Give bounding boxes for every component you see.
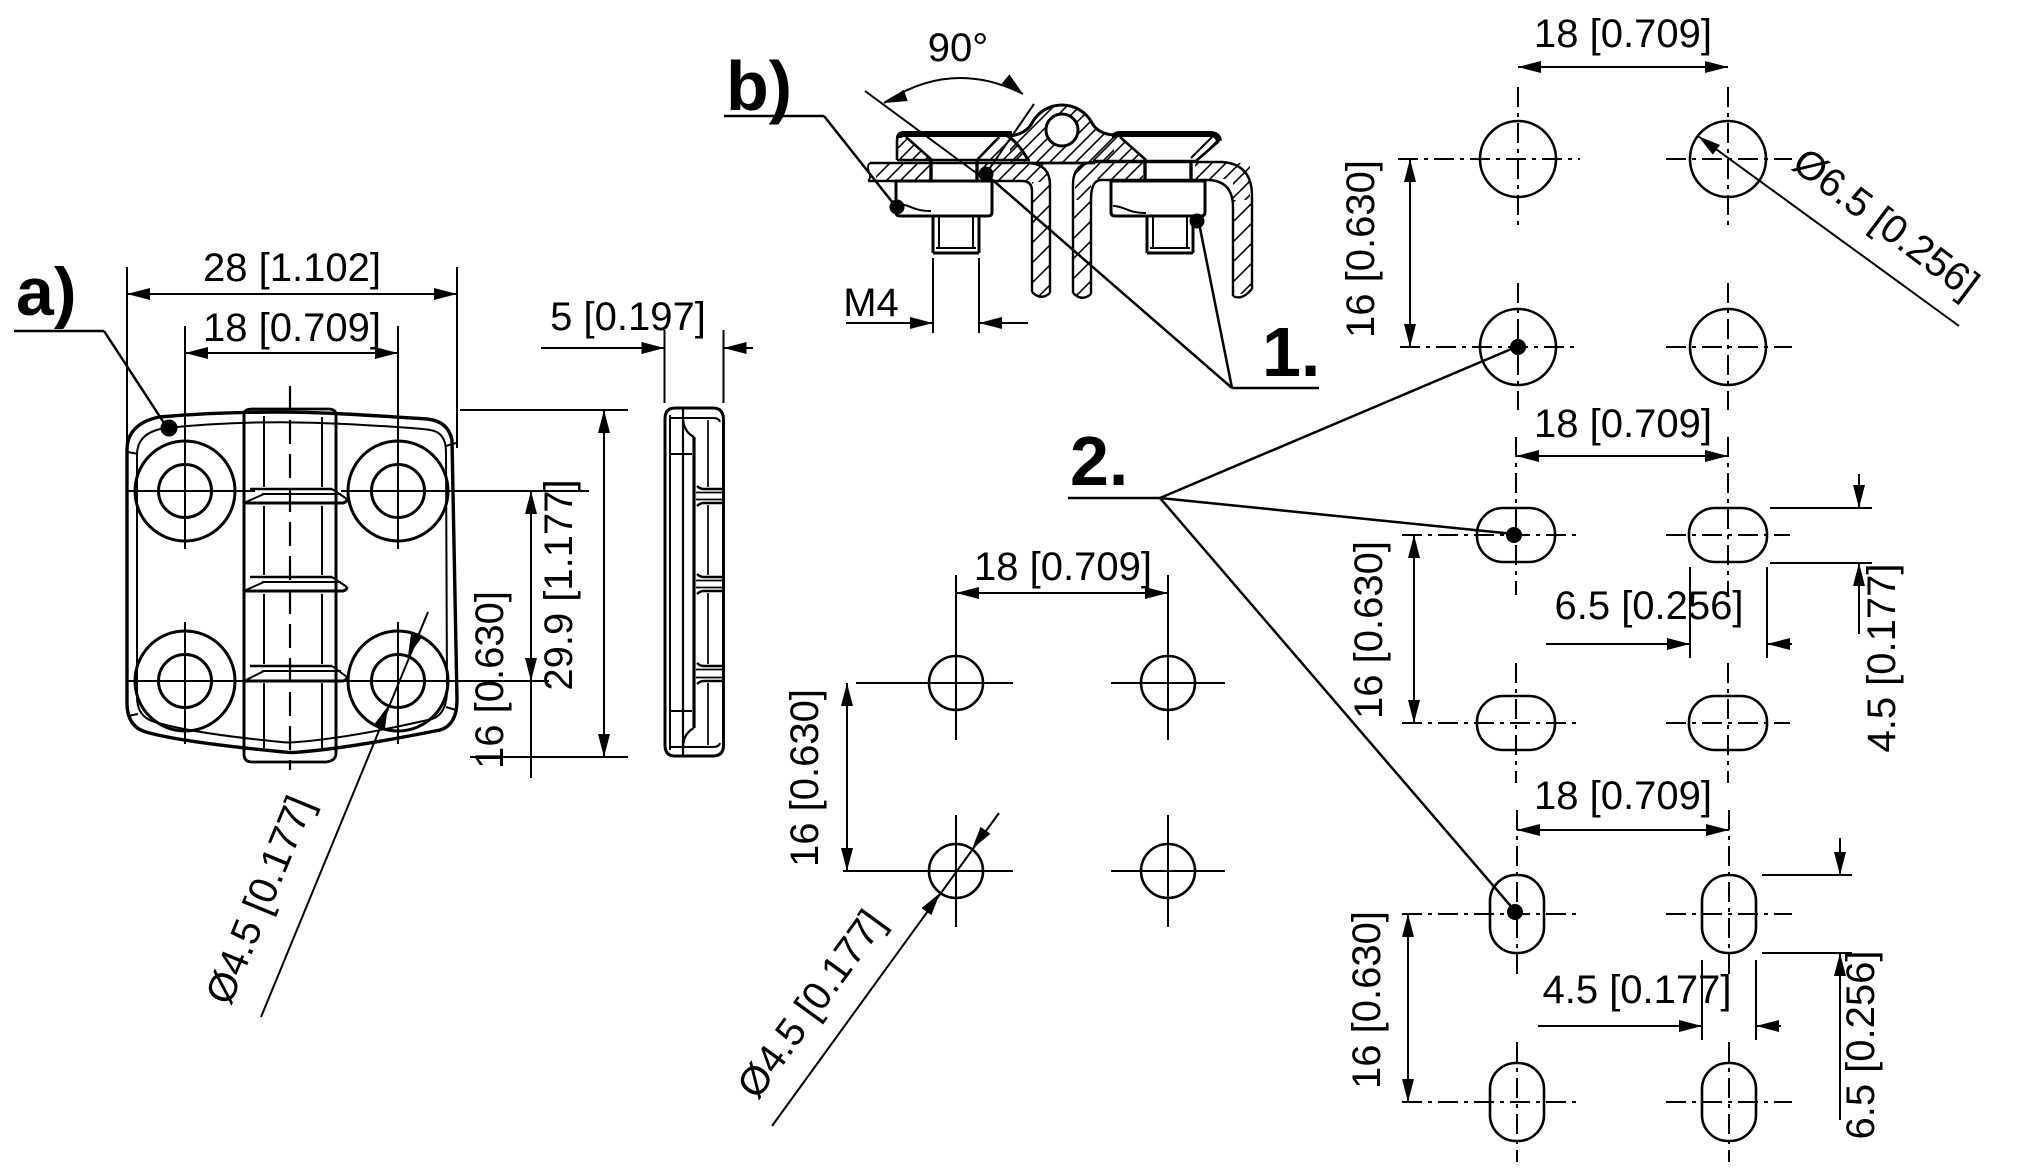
svg-text:16 [0.630]: 16 [0.630] (1347, 541, 1391, 719)
svg-text:18 [0.709]: 18 [0.709] (1534, 402, 1712, 446)
section screw 2 nut block (1111, 181, 1205, 216)
section left leaf rounded end (1004, 134, 1028, 160)
section right panel plate outline (1073, 162, 1252, 293)
hinge upper-left hole circle (159, 465, 212, 518)
knuckle gap boxes (250, 488, 332, 491)
knuckle outer right line (335, 417, 338, 752)
section right panel hatching (1050, 190, 1425, 305)
dimension 16 [0.630] hinge (530, 491, 532, 778)
hinge corner tick bottom-right (446, 707, 456, 710)
svg-text:4.5 [0.177]: 4.5 [0.177] (1860, 563, 1904, 752)
section hinge pin hole (1046, 114, 1078, 146)
svg-text:a): a) (16, 254, 76, 330)
section right leaf outline (1115, 134, 1219, 141)
hinge lower-right counterbore circle (348, 631, 448, 731)
side view knuckle barrel chamfer line (707, 420, 709, 487)
section left leaf hatching (816, 130, 1098, 165)
middle-right pattern slots (1477, 508, 1555, 562)
hinge front view outer outline (127, 412, 457, 752)
svg-text:M4: M4 (843, 281, 899, 325)
middle-right dim 18 [0.709] (1516, 455, 1728, 457)
side view leaf face line (682, 409, 684, 755)
dimension 29.9 [1.177] (460, 409, 628, 411)
section arm B bottom end (1073, 293, 1091, 298)
side view knuckle gaps (697, 486, 724, 489)
section screw 2 neck (1143, 160, 1146, 181)
90 degree dimension arc (884, 78, 1023, 103)
middle-right dim 6.5 [0.256] (1689, 567, 1691, 658)
middle-right crosshairs (1402, 534, 1580, 536)
side view top chamfer curve (683, 419, 694, 437)
dot for 2. middle-right pattern (1506, 527, 1522, 543)
section right panel bottom end (1233, 289, 1252, 297)
center pattern leader dia 4.5 (772, 813, 999, 1126)
section boss bottom line over gap (1028, 162, 1095, 165)
svg-text:18 [0.709]: 18 [0.709] (203, 306, 381, 350)
svg-text:16 [0.630]: 16 [0.630] (783, 689, 827, 867)
top-right crosshairs (1398, 158, 1580, 160)
dot for a) (161, 420, 178, 437)
section plate left break (868, 163, 870, 181)
hinge lower-left counterbore circle (135, 631, 235, 731)
bottom-right dim 18 [0.709] (1517, 829, 1729, 831)
knuckle strip bottom cap (244, 747, 336, 762)
bottom-right pattern slots (1490, 875, 1544, 953)
center pattern holes (929, 656, 983, 710)
hinge lower-left hole circle (159, 655, 212, 708)
svg-text:6.5 [0.256]: 6.5 [0.256] (1554, 584, 1743, 628)
center pattern dim 16 [0.630] (846, 683, 848, 871)
knuckle inner right line (321, 417, 323, 487)
svg-text:2.: 2. (1070, 422, 1128, 500)
hinge front view inner chamfer line (137, 422, 447, 742)
bottom-right crosshairs (1402, 913, 1580, 915)
side view bottom horizontal (671, 743, 720, 747)
bottom-right dim 16 [0.630] (1407, 914, 1409, 1102)
bottom-right dim 4.5 [0.177] (1701, 960, 1703, 1040)
hinge upper-right counterbore circle (348, 441, 448, 541)
svg-text:1.: 1. (1262, 313, 1320, 391)
top-right dim 16 [0.630] (1409, 159, 1411, 347)
dot for 2. bottom-right pattern (1507, 904, 1523, 920)
knuckle outer left line (243, 415, 246, 752)
svg-text:18 [0.709]: 18 [0.709] (974, 545, 1152, 589)
svg-text:5 [0.197]: 5 [0.197] (550, 295, 706, 339)
top-right dim 18 [0.709] (1518, 66, 1728, 68)
svg-text:b): b) (726, 47, 792, 125)
svg-text:18 [0.709]: 18 [0.709] (1534, 12, 1712, 56)
section screw 2 shank (1146, 216, 1149, 253)
svg-text:28 [1.102]: 28 [1.102] (203, 246, 381, 290)
svg-text:18 [0.709]: 18 [0.709] (1534, 774, 1712, 818)
knuckle inner left line (263, 416, 265, 487)
section hinge boss outline (1010, 105, 1114, 136)
side view top horizontal (671, 418, 720, 422)
hinge corner tick top-right (446, 443, 456, 446)
section screw 1 shank (932, 216, 935, 253)
middle-right dim 4.5 [0.177] (1770, 507, 1872, 509)
leader dia 6.5 (1698, 136, 1959, 326)
leader dia 4.5 hinge (261, 612, 428, 1017)
section right leaf hatching (1011, 130, 1293, 165)
bottom-right dim 6.5 [0.256] (1762, 874, 1852, 876)
svg-text:16 [0.630]: 16 [0.630] (1339, 160, 1383, 338)
dimension 5 [0.197] (664, 330, 666, 403)
hinge corner tick bottom-left (128, 714, 138, 716)
section arm B hatching (887, 190, 1262, 305)
section left panel outline with bend into arm A (870, 163, 1050, 293)
dot for 2. top-right pattern (1510, 339, 1526, 355)
side view outline (665, 408, 724, 756)
hinge lower-right hole circle (372, 655, 425, 708)
side view bottom chamfer curve (683, 728, 694, 746)
section arm A bottom end (1032, 292, 1050, 297)
center pattern crosshairs (856, 682, 1013, 684)
side view inner chamfer line left (669, 415, 671, 750)
hinge pin dashed centerline (289, 386, 291, 770)
knuckle strip top cap (244, 409, 336, 421)
svg-text:16 [0.630]: 16 [0.630] (1345, 911, 1389, 1089)
svg-text:16 [0.630]: 16 [0.630] (468, 591, 512, 769)
middle-right dim 16 [0.630] (1413, 535, 1415, 723)
hole crosshairs (128, 490, 255, 492)
side view top left notch line (670, 453, 692, 455)
section dot b-target (890, 200, 905, 215)
section boss hatching (886, 90, 1226, 170)
section plate hatching (778, 160, 1341, 205)
side view knuckle split line (692, 437, 695, 728)
svg-text:90°: 90° (928, 26, 989, 70)
hinge upper-right hole circle (372, 465, 425, 518)
svg-text:4.5 [0.177]: 4.5 [0.177] (1542, 968, 1731, 1012)
dimension 18 [0.709] hinge (185, 352, 398, 354)
90 degree dimension legs (865, 91, 983, 178)
section dot 1-target-left (979, 167, 994, 182)
section left leaf outline (899, 134, 1012, 138)
dimension 28 [1.102] (126, 267, 128, 458)
top-right pattern holes (1480, 121, 1556, 197)
side view bottom left notch line (670, 710, 692, 712)
hinge corner tick top-left (128, 452, 138, 454)
svg-text:29.9 [1.177]: 29.9 [1.177] (537, 479, 581, 690)
hinge upper-left counterbore circle (135, 441, 235, 541)
section dot 1-target-right (1190, 214, 1205, 229)
section screw 1 nut block (896, 181, 992, 216)
dimension M4 (932, 258, 934, 333)
section screw 1 neck (929, 160, 932, 181)
center pattern dim 18 [0.709] (956, 592, 1168, 594)
section arm A hatching (830, 175, 1240, 305)
svg-text:6.5 [0.256]: 6.5 [0.256] (1839, 950, 1883, 1139)
